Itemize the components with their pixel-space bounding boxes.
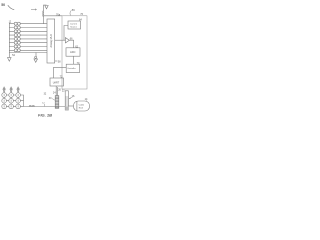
- thermistor line 6: [9, 42, 47, 44]
- sensor bus: [8, 23, 10, 58]
- label 76: [80, 13, 83, 16]
- leader 12b: [44, 104, 46, 107]
- return line arrow: [34, 59, 38, 63]
- label 14: [85, 98, 88, 101]
- wire UART down: [55, 86, 57, 96]
- thermistor line 8: [9, 49, 47, 51]
- svg-text:Current: Current: [70, 23, 77, 26]
- svg-text:FIG. 1B: FIG. 1B: [38, 113, 52, 118]
- thermistor grid row 1: [2, 93, 7, 98]
- svg-text:76a: 76a: [56, 13, 61, 16]
- leader 14: [86, 99, 88, 102]
- reel seam: [76, 101, 78, 110]
- current source U2: [68, 21, 81, 29]
- thermistor grid row 3: [2, 104, 7, 109]
- grid arrow col3: [16, 86, 20, 89]
- bus end arrow: [8, 58, 12, 62]
- grid column links: [4, 97, 18, 104]
- analog MUX U1: [47, 19, 55, 63]
- ADC U4: [66, 48, 80, 56]
- grid row links: [6, 95, 15, 106]
- controller U5: [66, 64, 79, 72]
- leader from 16: [69, 97, 72, 98]
- grid arrow col2: [9, 86, 13, 89]
- module dashed enclosure: [62, 16, 87, 89]
- label 56: [72, 8, 75, 12]
- UART U6: [50, 78, 64, 86]
- wire current source to amp node: [64, 26, 68, 41]
- cable bump a: [29, 105, 32, 106]
- label 52 leader arrow: [31, 9, 37, 10]
- wire pair down: [56, 87, 58, 96]
- cable line: [24, 106, 66, 108]
- label 54: [12, 54, 15, 57]
- label 12 bus top: [9, 21, 12, 23]
- label 12b: [42, 103, 45, 105]
- svg-text:30: 30: [49, 97, 52, 100]
- reference sensor wire: [44, 5, 47, 24]
- top rail wire to module: [44, 15, 63, 17]
- label 70: [77, 62, 80, 65]
- svg-text:22: 22: [62, 89, 65, 92]
- reference sensor triangle: [45, 6, 48, 9]
- grid right bus: [20, 95, 23, 107]
- leader from 30: [52, 99, 55, 101]
- label 64: [79, 19, 82, 22]
- svg-text:54: 54: [12, 54, 15, 57]
- wire controller to UART: [54, 67, 67, 78]
- leader from label 56: [70, 10, 71, 15]
- wire amp to ADC: [69, 40, 73, 48]
- thermistor grid row 2: [2, 98, 7, 103]
- svg-text:16: 16: [72, 95, 75, 98]
- op-amp buffer U3: [65, 38, 69, 43]
- svg-text:56: 56: [72, 8, 75, 12]
- cable connector bar: [55, 96, 59, 109]
- return line connector circle: [35, 56, 37, 58]
- svg-text:Reel: Reel: [79, 108, 84, 110]
- wire MUX output to amp: [55, 39, 66, 41]
- label 72: [60, 76, 63, 79]
- leader from label 50: [8, 5, 14, 10]
- thermistor line 7: [9, 46, 47, 48]
- svg-text:Source: Source: [70, 26, 77, 29]
- svg-text:Cable: Cable: [79, 105, 85, 107]
- return drop wire: [35, 53, 37, 57]
- svg-text:12: 12: [42, 103, 45, 105]
- connector ladder: [65, 91, 68, 110]
- label 62: [75, 45, 78, 48]
- wire ADC to controller: [73, 56, 75, 64]
- svg-text:UART: UART: [53, 81, 60, 84]
- thermistor line 3: [9, 30, 47, 32]
- thermistor line 1: [9, 23, 47, 25]
- svg-text:14: 14: [85, 98, 88, 101]
- return line 9: [9, 52, 47, 54]
- svg-text:24: 24: [53, 92, 56, 95]
- svg-text:Controller: Controller: [67, 67, 76, 70]
- thermistor line 5: [9, 38, 47, 40]
- svg-text:64: 64: [79, 19, 82, 22]
- connector shading: [65, 106, 68, 110]
- wire ladder to reel: [68, 105, 73, 107]
- cable bump b: [32, 105, 35, 106]
- label 50: [1, 3, 5, 7]
- label 32: [44, 92, 47, 95]
- svg-text:ADC: ADC: [70, 50, 76, 54]
- label 24: [53, 92, 56, 95]
- grid arrow col1: [2, 86, 6, 89]
- cable reel: [74, 101, 90, 111]
- thermistor line 4: [9, 34, 47, 36]
- svg-text:Analog MUX: Analog MUX: [50, 34, 53, 48]
- label 58: [55, 60, 58, 62]
- svg-text:50: 50: [1, 3, 5, 7]
- thermistor line 2: [9, 27, 47, 29]
- svg-text:32: 32: [44, 92, 47, 95]
- label 16: [72, 95, 75, 98]
- grid glyphs: [4, 94, 18, 108]
- label 30: [49, 97, 52, 100]
- svg-text:58: 58: [58, 60, 61, 63]
- label 26: [58, 89, 61, 92]
- label 76a: [56, 13, 61, 16]
- label 22: [62, 89, 65, 92]
- label 66: [70, 37, 73, 40]
- reference sensor zigzag: [42, 11, 43, 17]
